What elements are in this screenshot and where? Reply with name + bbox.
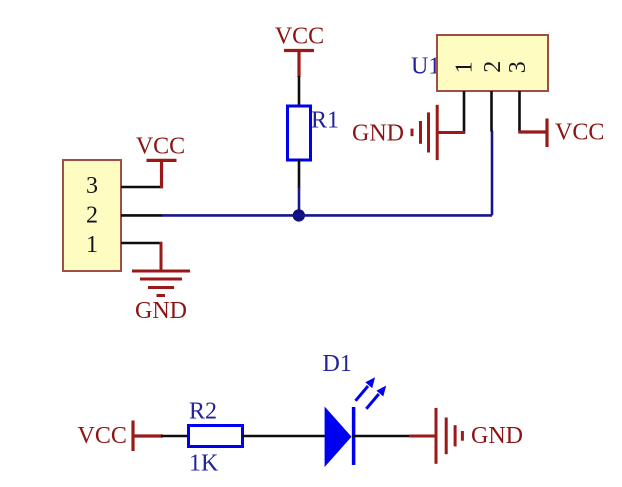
svg-text:2: 2 xyxy=(480,61,506,73)
U1 pin 1 wire xyxy=(463,91,466,133)
wire D1 to GND xyxy=(352,435,411,438)
power symbol VCC (bottom rail) xyxy=(133,421,163,452)
resistor R2 xyxy=(189,426,243,447)
resistor R1 xyxy=(288,106,311,160)
svg-text:GND: GND xyxy=(135,298,187,324)
P1 pin 2 wire (black stub) xyxy=(121,214,162,217)
connector P1 body xyxy=(63,160,121,271)
svg-text:R2: R2 xyxy=(189,399,217,425)
svg-text:1: 1 xyxy=(86,232,98,258)
wire VCC to R1 xyxy=(298,76,301,107)
svg-text:U1: U1 xyxy=(411,54,440,80)
ground symbol GND at P1 pin 1 xyxy=(132,242,190,296)
svg-text:R1: R1 xyxy=(311,108,339,134)
P1 pin 1 wire xyxy=(121,242,162,245)
wire VCC to R2 xyxy=(161,435,190,438)
svg-text:3: 3 xyxy=(505,61,531,73)
power symbol VCC at P1 pin 3 xyxy=(147,160,177,188)
wire net P1.2 to U1.2 (horizontal) xyxy=(161,214,492,217)
svg-text:3: 3 xyxy=(86,173,98,199)
wire R2 to D1 xyxy=(242,435,326,438)
ground symbol GND at D1 cathode xyxy=(409,408,462,464)
power symbol VCC at U1 pin 3 xyxy=(518,119,547,148)
svg-text:2: 2 xyxy=(86,203,98,229)
power symbol VCC (top rail) xyxy=(284,51,314,78)
P1 pin 3 wire xyxy=(121,186,162,189)
LED D1 xyxy=(325,377,387,467)
node A junction xyxy=(293,209,305,221)
svg-text:D1: D1 xyxy=(323,351,352,377)
U1 pin 2 wire (black stub) xyxy=(490,91,493,132)
wire R1 to node A (blue segment) xyxy=(298,187,301,216)
svg-text:1K: 1K xyxy=(189,451,219,477)
svg-text:1: 1 xyxy=(452,61,478,73)
wire vertical up to U1 pin 2 xyxy=(491,131,494,216)
ground symbol GND at U1 pin 1 xyxy=(412,105,465,160)
svg-text:VCC: VCC xyxy=(78,423,127,449)
U1 pin 3 wire xyxy=(518,91,521,132)
wire R1 to node A (black segment) xyxy=(298,159,301,188)
svg-text:GND: GND xyxy=(352,121,404,147)
svg-text:VCC: VCC xyxy=(275,24,324,50)
IC U1 body xyxy=(437,35,548,91)
svg-text:VCC: VCC xyxy=(555,120,604,146)
svg-text:GND: GND xyxy=(471,423,523,449)
svg-text:VCC: VCC xyxy=(136,134,185,160)
